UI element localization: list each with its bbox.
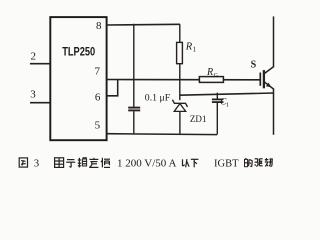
wire C 0.1uF top lead	[133, 24, 135, 107]
zener diode ZD1 cathode bar	[172, 100, 187, 107]
wire pin3 lead	[30, 102, 50, 104]
wire pin6 jog	[107, 80, 118, 96]
svg-text:S: S	[251, 60, 257, 71]
wire C1 top lead	[216, 93, 218, 99]
wire C 0.1uF bottom lead	[133, 111, 135, 134]
wire ground line pin5	[107, 133, 218, 136]
wire gate line pin7 to gate	[107, 79, 260, 81]
wire IGBT collector diagonal	[264, 66, 274, 74]
svg-text:7: 7	[95, 66, 101, 78]
svg-text:5: 5	[95, 119, 101, 131]
wire ZD1 anode lead	[179, 111, 181, 134]
op-amp U1 TLP250 body	[50, 17, 106, 140]
transistor S IGBT body bar	[263, 70, 265, 88]
wire pin2 lead	[30, 63, 50, 65]
svg-text:8: 8	[96, 20, 102, 32]
zener diode ZD1 triangle	[174, 104, 186, 112]
svg-text:6: 6	[95, 91, 101, 103]
wire IGBT emitter diagonal	[264, 82, 274, 90]
wire C1 bottom lead	[216, 103, 218, 134]
svg-text:0.1 μF: 0.1 μF	[145, 93, 170, 103]
capacitor 0.1uF plates	[128, 107, 140, 109]
svg-text:TLP250: TLP250	[62, 45, 95, 59]
resistor RG	[199, 77, 223, 83]
wire IGBT collector up	[273, 16, 275, 67]
resistor R1	[177, 42, 183, 63]
IGBT emitter arrow	[266, 83, 271, 88]
transistor S IGBT gate bar	[259, 73, 261, 86]
caption 图3	[19, 158, 27, 167]
wire R1 bottom lead to ZD1	[179, 64, 181, 100]
caption 以下	[182, 159, 184, 166]
wire IGBT emitter down	[273, 89, 275, 135]
svg-text:R: R	[185, 41, 193, 52]
svg-text:1 200 V/50 A: 1 200 V/50 A	[117, 158, 176, 170]
capacitor C1 plates	[212, 98, 224, 100]
svg-text:IGBT: IGBT	[214, 158, 239, 170]
wire R1 top lead	[179, 24, 181, 42]
svg-text:R: R	[206, 67, 213, 78]
svg-text:3: 3	[30, 88, 36, 100]
svg-text:2: 2	[30, 51, 36, 63]
caption 的驱动	[245, 159, 248, 166]
svg-text:G: G	[214, 73, 219, 79]
svg-text:ZD1: ZD1	[190, 115, 207, 125]
wire Vcc rail pin8	[107, 23, 180, 26]
svg-text:1: 1	[226, 101, 229, 108]
caption 用于额定值	[55, 158, 64, 168]
wire emitter node line	[180, 93, 274, 95]
svg-text:3: 3	[34, 159, 39, 170]
svg-text:1: 1	[193, 45, 197, 53]
